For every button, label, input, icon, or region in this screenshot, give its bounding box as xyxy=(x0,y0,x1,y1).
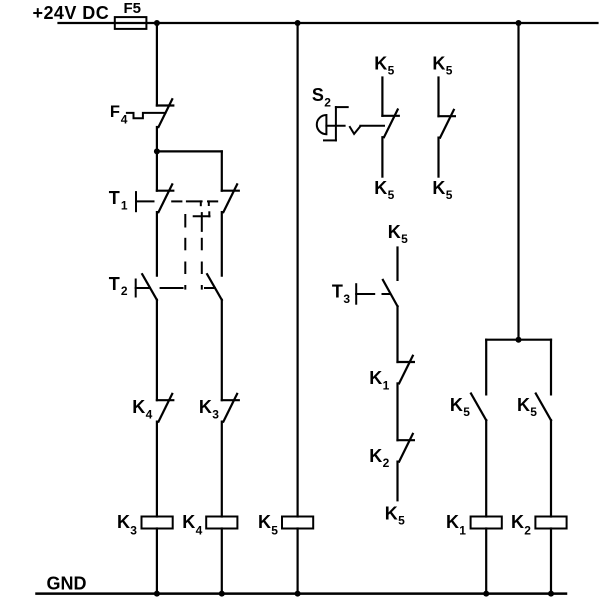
label K5 (top of S2 contact) xyxy=(374,54,394,78)
wire: K1 coil to GND xyxy=(485,529,487,594)
label K4 coil xyxy=(182,512,202,538)
wire: split to K5 contact left xyxy=(485,340,487,395)
T1 actuator dashed link xyxy=(136,201,217,205)
wire: second contact to bottom K5 label xyxy=(437,138,439,177)
svg-text:4: 4 xyxy=(146,407,153,421)
svg-text:K: K xyxy=(450,395,463,415)
svg-text:K: K xyxy=(369,368,382,388)
svg-text:S: S xyxy=(312,85,324,105)
contact K5 under S2 (NC) xyxy=(382,110,398,138)
node +24V DC rail xyxy=(33,3,598,23)
svg-text:5: 5 xyxy=(398,514,405,528)
wire: K5 label to second contact xyxy=(437,78,439,117)
junction GND at K1 coil xyxy=(483,591,489,597)
label F4 xyxy=(110,103,128,127)
T3 actuator dashed link xyxy=(356,293,389,295)
svg-text:5: 5 xyxy=(388,64,395,78)
svg-text:5: 5 xyxy=(530,405,537,419)
wire column B: K3 contact to K4 coil xyxy=(221,422,223,517)
contact K5 left (NO) xyxy=(471,394,486,421)
svg-text:K: K xyxy=(258,512,271,532)
junction node below F4 xyxy=(154,148,160,154)
junction GND at column B xyxy=(219,591,225,597)
svg-text:F: F xyxy=(110,103,120,121)
label K5 (bottom of middle chain) xyxy=(385,504,405,528)
svg-text:T: T xyxy=(109,274,120,294)
wire column B: branch to T1 right xyxy=(221,151,223,190)
wire right branch: rail to split xyxy=(517,23,519,340)
svg-text:2: 2 xyxy=(121,284,128,298)
label K1 contact xyxy=(369,368,389,392)
coil K2 xyxy=(535,517,566,529)
svg-text:K: K xyxy=(117,512,130,532)
wire column C: rail to K5 coil xyxy=(297,23,299,517)
label T1 xyxy=(109,188,128,212)
wire column B: T1 to T2 xyxy=(221,212,223,276)
svg-text:5: 5 xyxy=(463,405,470,419)
svg-text:5: 5 xyxy=(271,524,278,538)
svg-text:5: 5 xyxy=(401,232,408,246)
svg-text:5: 5 xyxy=(446,64,453,78)
contact K4 (NC) xyxy=(157,394,173,422)
F4 thermal actuator link xyxy=(127,113,165,118)
svg-text:1: 1 xyxy=(459,524,466,538)
svg-text:2: 2 xyxy=(524,524,531,538)
label K5 coil xyxy=(258,512,278,538)
T3 actuator tick xyxy=(355,284,357,304)
svg-text:GND: GND xyxy=(47,574,87,594)
junction right branch split xyxy=(516,337,522,343)
svg-text:K: K xyxy=(511,512,524,532)
label K4 contact xyxy=(132,397,152,421)
T2 actuator dashed link xyxy=(136,287,215,289)
label K2 coil xyxy=(511,512,531,538)
junction top rail at column A xyxy=(154,20,160,26)
contact K5 right (NO) xyxy=(536,394,551,421)
junction GND at column C xyxy=(295,591,301,597)
svg-text:2: 2 xyxy=(324,95,331,109)
label K1 coil xyxy=(446,512,466,538)
label K3 coil xyxy=(117,512,137,538)
contact F4 (NC) xyxy=(157,99,173,127)
svg-text:K: K xyxy=(517,395,530,415)
wire: K1 to K2 contact xyxy=(396,383,398,440)
label K5 (bottom of S2 contact) xyxy=(374,178,394,202)
label K5 (top of second contact) xyxy=(432,54,452,78)
wire: T3 to K1 contact xyxy=(396,306,398,362)
wire: K5 left contact to K1 coil xyxy=(485,420,487,516)
mechanical linkage dashed vertical left xyxy=(184,215,186,289)
svg-text:K: K xyxy=(385,504,398,524)
svg-text:2: 2 xyxy=(383,456,390,470)
svg-text:K: K xyxy=(374,178,387,198)
svg-text:F5: F5 xyxy=(124,0,142,17)
coil K1 xyxy=(471,517,502,529)
coil K5 xyxy=(282,517,313,529)
label T3 xyxy=(332,282,351,306)
label K5 (bottom of second contact) xyxy=(432,178,452,202)
wire column A: F4 to junction xyxy=(156,127,158,151)
label K5 right contact xyxy=(517,395,537,419)
label K3 contact xyxy=(199,397,219,421)
wire branch to column B xyxy=(157,150,222,152)
mechanical linkage dashed vertical middle xyxy=(201,239,203,289)
coil K3 xyxy=(142,517,173,529)
wire: K5 label to S2 K5 contact xyxy=(381,78,383,116)
wire column A: junction to T1 left xyxy=(156,151,158,190)
contact K3 (NC) xyxy=(222,394,239,422)
contact K1 (NC) xyxy=(398,356,414,384)
junction top rail at column C xyxy=(295,20,301,26)
S2 latch link to K5 contact xyxy=(350,126,384,134)
svg-text:4: 4 xyxy=(121,113,128,127)
wire: contact to bottom K5 label xyxy=(381,137,383,176)
node GND rail xyxy=(37,574,567,594)
mechanical linkage T-bar xyxy=(194,212,210,231)
junction GND at column A xyxy=(154,591,160,597)
junction GND at K2 coil xyxy=(548,591,554,597)
contact T2 right (NO) xyxy=(207,274,222,300)
label K2 contact xyxy=(369,446,389,470)
svg-text:3: 3 xyxy=(212,407,219,421)
T1 actuator tick xyxy=(135,192,137,211)
svg-text:K: K xyxy=(374,54,387,74)
coil K4 xyxy=(206,517,237,529)
wire column A: rail to F4 xyxy=(156,23,158,106)
wire: K5 label to T3 contact xyxy=(396,248,398,280)
contact K2 (NC) xyxy=(398,434,414,462)
wire column A: T1 to T2 xyxy=(156,212,158,276)
svg-text:K: K xyxy=(182,512,195,532)
wire column B: K4 coil to GND xyxy=(221,529,223,594)
wire: K2 coil to GND xyxy=(550,529,552,594)
svg-text:5: 5 xyxy=(388,188,395,202)
svg-text:K: K xyxy=(446,512,459,532)
contact T1 left (NC) xyxy=(157,184,173,212)
svg-text:K: K xyxy=(199,397,212,417)
wire column A: K4 contact to K3 coil xyxy=(156,422,158,517)
wire column A: K3 coil to GND xyxy=(156,529,158,594)
svg-text:K: K xyxy=(369,446,382,466)
contact T1 right (NC) xyxy=(222,184,239,212)
svg-text:1: 1 xyxy=(383,378,390,392)
wire column A: T2 to K4 contact xyxy=(156,300,158,400)
svg-text:K: K xyxy=(388,222,401,242)
svg-text:K: K xyxy=(432,54,445,74)
svg-text:K: K xyxy=(432,178,445,198)
wire column B: T2 to K3 contact xyxy=(221,300,223,400)
T2 actuator tick xyxy=(135,280,137,297)
fuse F5 xyxy=(115,0,147,29)
svg-text:T: T xyxy=(109,188,120,208)
svg-text:+24V DC: +24V DC xyxy=(33,3,110,23)
label K5 left contact xyxy=(450,395,470,419)
label S2 xyxy=(312,85,331,109)
wire column C: K5 coil to GND xyxy=(297,529,299,594)
label T2 xyxy=(109,274,128,298)
svg-text:3: 3 xyxy=(130,524,137,538)
svg-text:K: K xyxy=(132,397,145,417)
junction top rail at right branch xyxy=(516,20,522,26)
svg-text:T: T xyxy=(332,282,343,302)
svg-text:3: 3 xyxy=(343,292,350,306)
contact T3 (NO) xyxy=(383,280,398,306)
svg-text:4: 4 xyxy=(196,524,203,538)
wire: K5 right contact to K2 coil xyxy=(550,420,552,516)
wire: K2 contact down xyxy=(396,462,398,501)
svg-text:1: 1 xyxy=(121,198,128,212)
wire right branch split bar xyxy=(486,339,551,341)
svg-text:5: 5 xyxy=(446,188,453,202)
pushbutton S2 xyxy=(317,107,348,140)
contact T2 left (NO) xyxy=(142,274,157,300)
wire: split to K5 contact right xyxy=(550,340,552,395)
contact K5 second (NC) xyxy=(439,110,455,138)
label K5 (top of middle chain) xyxy=(388,222,408,246)
